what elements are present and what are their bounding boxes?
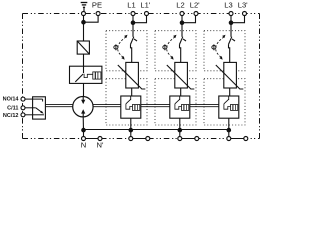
svg-text:L1': L1' — [140, 1, 150, 10]
svg-text:L3': L3' — [238, 1, 248, 10]
svg-text:L3: L3 — [224, 1, 232, 10]
svg-text:C/11: C/11 — [7, 105, 18, 111]
svg-text:NO/14: NO/14 — [3, 97, 20, 103]
svg-text:N: N — [81, 141, 86, 150]
svg-text:L1: L1 — [127, 1, 135, 10]
svg-text:L2: L2 — [176, 1, 184, 10]
svg-text:PE: PE — [92, 1, 102, 10]
svg-text:N': N' — [97, 141, 104, 150]
svg-text:L2': L2' — [190, 1, 200, 10]
svg-text:NC/12: NC/12 — [3, 113, 19, 119]
